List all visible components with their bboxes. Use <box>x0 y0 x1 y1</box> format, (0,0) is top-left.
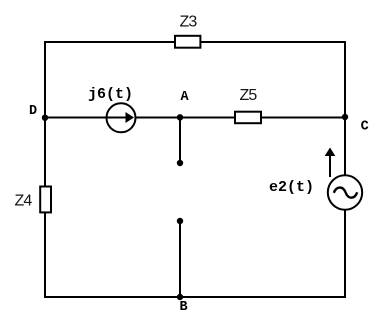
wire stub below node A <box>179 118 181 164</box>
node terminal below A stub <box>177 160 183 166</box>
svg-text:Z3: Z3 <box>179 14 197 31</box>
svg-text:D: D <box>29 104 37 119</box>
svg-text:C: C <box>361 120 369 135</box>
node terminal above B stub <box>177 218 183 224</box>
resistor Z3 <box>175 14 200 48</box>
wire top (D corner to C corner) <box>45 41 345 43</box>
voltage source e2(t) <box>269 175 362 209</box>
wire bottom <box>44 296 346 298</box>
resistor Z4 <box>14 187 51 213</box>
node D <box>29 104 48 121</box>
svg-text:e2(t): e2(t) <box>269 179 314 196</box>
svg-text:j6(t): j6(t) <box>88 86 133 103</box>
svg-text:B: B <box>179 300 187 315</box>
svg-text:A: A <box>180 90 189 105</box>
arrow (e2 reference direction) <box>325 148 336 178</box>
svg-text:Z4: Z4 <box>14 193 32 210</box>
wire left (top-left corner down to bottom-left) <box>44 41 46 298</box>
node A <box>177 90 190 121</box>
wire middle D to C <box>45 117 345 119</box>
current source j6(t) <box>88 86 136 132</box>
node B <box>177 294 188 315</box>
resistor Z5 <box>235 87 261 123</box>
node C <box>342 114 369 135</box>
wire right <box>344 41 346 298</box>
svg-text:Z5: Z5 <box>239 87 257 104</box>
wire stub above node B <box>179 221 181 297</box>
